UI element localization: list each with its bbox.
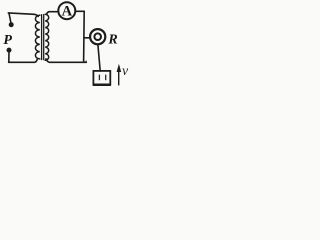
box bottom thick edge xyxy=(93,83,111,86)
wire secondary top lead to ammeter xyxy=(47,12,59,15)
wire stub to device R xyxy=(84,37,90,39)
label P xyxy=(3,33,12,48)
box (output device / load) xyxy=(93,71,110,85)
voltage arrow shaft xyxy=(118,71,120,86)
transformer T primary winding xyxy=(35,15,39,59)
transformer T secondary winding xyxy=(45,14,48,60)
wire right vertical (corner down to bottom run) xyxy=(83,11,86,62)
label R xyxy=(107,33,117,48)
wire corner overshoot tick xyxy=(85,61,87,62)
device R inner circle xyxy=(94,33,101,40)
terminal P-bottom (binding post dot) xyxy=(7,48,12,53)
svg-text:P: P xyxy=(3,33,12,48)
wire terminal-P riser xyxy=(9,13,11,23)
ammeter A (circle) xyxy=(58,2,75,19)
wire bottom-left riser xyxy=(8,52,10,61)
label v xyxy=(122,63,128,78)
transformer T core line left xyxy=(41,15,43,60)
wire R bottom to box xyxy=(98,45,100,71)
transformer T core line right xyxy=(43,15,45,60)
voltage arrow head xyxy=(117,64,122,72)
wire top-left horizontal (terminal P to transformer primary top) xyxy=(8,13,38,17)
wire bottom run (secondary bottom lead along y=62) xyxy=(46,59,86,63)
svg-text:v: v xyxy=(122,63,128,78)
device R outer circle xyxy=(90,29,105,44)
box inner mark right xyxy=(105,75,107,81)
ammeter A letter xyxy=(62,4,73,20)
wire bottom-left horizontal (terminal to transformer primary bottom) xyxy=(9,59,38,62)
box inner mark left xyxy=(98,75,100,81)
terminal P-top (binding post dot) xyxy=(9,22,14,27)
wire ammeter right to corner xyxy=(75,10,84,12)
svg-text:R: R xyxy=(107,33,117,48)
svg-text:A: A xyxy=(62,4,73,20)
